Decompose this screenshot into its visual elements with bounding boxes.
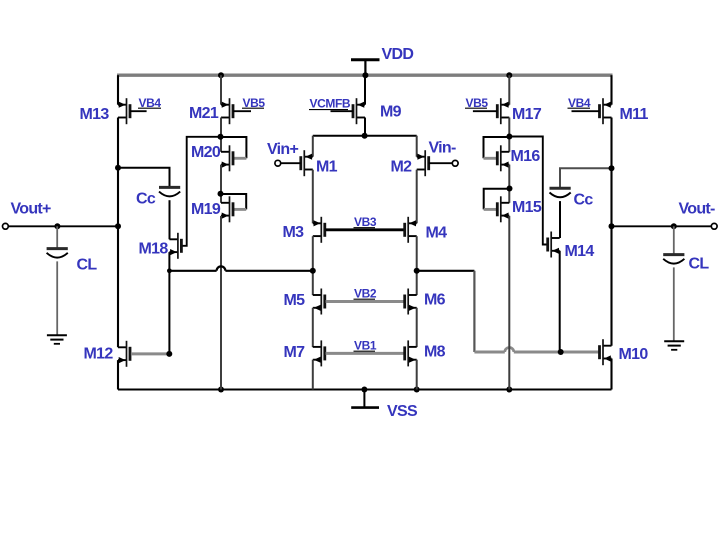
svg-text:M2: M2 xyxy=(391,159,413,176)
svg-text:M12: M12 xyxy=(84,346,114,363)
transistor M9 xyxy=(331,98,366,124)
svg-text:M4: M4 xyxy=(426,225,448,242)
wire VB3 bus xyxy=(326,228,404,231)
transistor M12 xyxy=(118,341,130,367)
wire M15 diode loop xyxy=(484,189,510,210)
svg-text:Cc: Cc xyxy=(574,192,594,209)
svg-text:VB3: VB3 xyxy=(354,215,377,229)
svg-text:M15: M15 xyxy=(512,199,542,216)
svg-text:M20: M20 xyxy=(191,144,221,161)
wire Cc-right bottom xyxy=(559,201,561,238)
node VDD-M9 junction xyxy=(362,72,368,78)
wire Vout+ xyxy=(8,225,118,227)
node VDD-M21 junction xyxy=(218,72,224,78)
transistor M4 xyxy=(405,217,417,243)
wire M8 to VSS xyxy=(416,360,418,390)
wire M6 down xyxy=(416,308,418,347)
transistor M21 xyxy=(221,98,251,124)
transistor M15 xyxy=(497,196,509,222)
wire M3 down xyxy=(312,236,314,295)
port Vin- xyxy=(452,160,458,166)
svg-text:M13: M13 xyxy=(80,106,110,123)
svg-text:Vin+: Vin+ xyxy=(267,141,299,158)
wire left cascode bus xyxy=(169,270,216,272)
svg-text:VDD: VDD xyxy=(382,46,414,63)
node M16-M15 junction xyxy=(507,186,513,192)
transistor M18 xyxy=(169,233,181,259)
wire M19 diode loop xyxy=(221,194,247,209)
node M14-M10gate junction xyxy=(558,349,564,355)
port Vout- xyxy=(711,223,717,229)
wire M20-M19 xyxy=(220,165,222,203)
transistor M20 xyxy=(221,145,233,171)
wire right bus drop xyxy=(473,271,475,352)
svg-text:M14: M14 xyxy=(565,243,595,260)
transistor M1 xyxy=(281,150,313,176)
transistor M16 xyxy=(497,145,509,171)
wire VB2 bus xyxy=(326,300,404,303)
wire M19 gate lead xyxy=(234,208,247,211)
wire M14 source down xyxy=(559,251,561,352)
transistor M19 xyxy=(221,196,233,222)
node M12 gate junction xyxy=(166,351,172,357)
svg-text:M3: M3 xyxy=(283,224,305,241)
wire M2 source xyxy=(416,136,418,157)
wire hop over M19 column xyxy=(217,266,226,270)
svg-text:Vout-: Vout- xyxy=(679,201,716,218)
node M4-bus junction xyxy=(414,268,420,274)
svg-text:M5: M5 xyxy=(284,292,306,309)
svg-text:Vout+: Vout+ xyxy=(11,201,52,218)
transistor M10 xyxy=(600,339,612,365)
wire M14 gate net xyxy=(509,137,547,245)
transistor M3 xyxy=(313,217,325,243)
node CL-left junction xyxy=(54,223,60,229)
wire M1 drain xyxy=(312,170,314,224)
port Vout+ xyxy=(3,223,9,229)
transistor M11 xyxy=(572,98,612,124)
transistor M13 xyxy=(118,98,147,124)
wire left cascode bus 2 xyxy=(225,270,312,272)
wire left frame top xyxy=(117,75,119,105)
transistor M14 xyxy=(548,232,560,258)
svg-text:CL: CL xyxy=(689,256,710,273)
node Cc-left tap xyxy=(115,165,121,171)
svg-text:M7: M7 xyxy=(284,344,306,361)
capacitor CL xyxy=(47,249,68,258)
wire VB1 bus xyxy=(326,352,404,355)
node VSS-M8 junction xyxy=(414,387,420,393)
node M21-M20 junction xyxy=(218,134,224,140)
node CL-right junction xyxy=(671,223,677,229)
wire M20 diode loop xyxy=(221,137,247,158)
svg-text:VB2: VB2 xyxy=(354,287,377,301)
port Vin+ xyxy=(275,160,281,166)
wire VSS rail xyxy=(118,388,612,390)
wire M15 to VSS xyxy=(508,216,510,390)
node VSS-M19col junction xyxy=(218,387,224,393)
wire hop over M15 column xyxy=(505,348,514,353)
svg-text:M8: M8 xyxy=(424,344,446,361)
wire Cc-right top xyxy=(560,168,612,187)
svg-text:M6: M6 xyxy=(424,292,446,309)
wire M7 to VSS xyxy=(312,360,314,390)
svg-text:CL: CL xyxy=(77,257,98,274)
svg-text:VB1: VB1 xyxy=(354,339,377,353)
wire M9 source xyxy=(364,75,366,105)
wire M10 gate bus 2 xyxy=(514,351,600,354)
svg-text:M17: M17 xyxy=(512,106,542,123)
transistor M7 xyxy=(313,340,325,366)
svg-text:VCMFB: VCMFB xyxy=(310,97,351,111)
wire right frame bottom xyxy=(610,359,612,390)
svg-text:M10: M10 xyxy=(619,346,649,363)
svg-text:Cc: Cc xyxy=(136,191,156,208)
wire M16-M15 xyxy=(508,165,510,203)
wire CL-left bottom lead xyxy=(56,261,58,335)
wire right frame mid xyxy=(610,118,612,346)
wire M17 source xyxy=(508,75,510,105)
node Vout- tap xyxy=(609,223,615,229)
wire M16 gate lead xyxy=(484,157,497,160)
wire M21 source xyxy=(220,75,222,105)
svg-text:M19: M19 xyxy=(191,201,221,218)
svg-text:M1: M1 xyxy=(316,159,338,176)
ground xyxy=(664,341,684,350)
wire M10 gate bus xyxy=(474,351,504,354)
node M18-bus junction xyxy=(167,268,172,273)
wire M18 gate net xyxy=(182,137,221,246)
svg-text:M21: M21 xyxy=(189,105,219,122)
transistor M17 xyxy=(473,98,509,124)
wire left frame bottom xyxy=(117,360,119,389)
wire M4 down xyxy=(416,236,418,295)
transistor M8 xyxy=(405,340,417,366)
wire left frame mid xyxy=(117,118,119,348)
transistor M6 xyxy=(405,289,417,315)
node Cc-right tap xyxy=(609,165,615,171)
svg-text:M16: M16 xyxy=(511,148,541,165)
capacitor CL xyxy=(663,255,684,264)
wire M18 source down xyxy=(168,252,170,354)
wire right cascode bus xyxy=(417,270,475,272)
node VSS-supply junction xyxy=(361,387,367,393)
wire M21 drain xyxy=(220,118,222,152)
ground xyxy=(47,335,67,344)
wire CL-right bottom lead xyxy=(673,267,675,341)
wire M20 gate lead xyxy=(234,157,247,160)
wire M5 down xyxy=(312,308,314,347)
wire M1 source xyxy=(312,136,314,157)
wire Cc-left top xyxy=(118,168,170,186)
node M3-bus junction xyxy=(310,268,316,274)
svg-text:M18: M18 xyxy=(139,241,169,258)
node Vout+ tap xyxy=(115,223,121,229)
wire CL-left top lead xyxy=(56,226,58,247)
node M20-M19 junction xyxy=(218,191,224,197)
capacitor Cc xyxy=(159,187,180,196)
svg-text:VSS: VSS xyxy=(387,403,418,420)
wire M19 to VSS xyxy=(220,216,222,390)
wire M16 diode loop xyxy=(484,137,510,158)
wire M9 drain xyxy=(364,118,366,136)
svg-text:M11: M11 xyxy=(620,106,649,123)
wire Cc-left bottom xyxy=(169,200,171,239)
wire M12 gate xyxy=(131,352,170,355)
node VSS-M15col junction xyxy=(506,387,512,393)
transistor M2 xyxy=(417,150,453,176)
VSS supply symbol xyxy=(351,390,379,408)
transistor M5 xyxy=(313,289,325,315)
wire Vout- xyxy=(612,225,712,227)
wire M17 drain xyxy=(508,118,510,152)
wire source-coupled xyxy=(313,135,417,137)
wire CL-right top lead xyxy=(673,226,675,253)
svg-text:M9: M9 xyxy=(380,104,402,121)
node VDD-M17 junction xyxy=(506,72,512,78)
node M17-M16 junction xyxy=(506,134,512,140)
wire right frame top xyxy=(610,75,612,105)
svg-text:Vin-: Vin- xyxy=(429,140,457,157)
wire VDD rail xyxy=(117,73,613,76)
node diff pair common source xyxy=(362,133,368,139)
capacitor Cc xyxy=(550,188,571,197)
wire M2 drain xyxy=(416,170,418,224)
wire M15 gate lead xyxy=(484,208,497,211)
VDD supply symbol xyxy=(351,60,380,75)
